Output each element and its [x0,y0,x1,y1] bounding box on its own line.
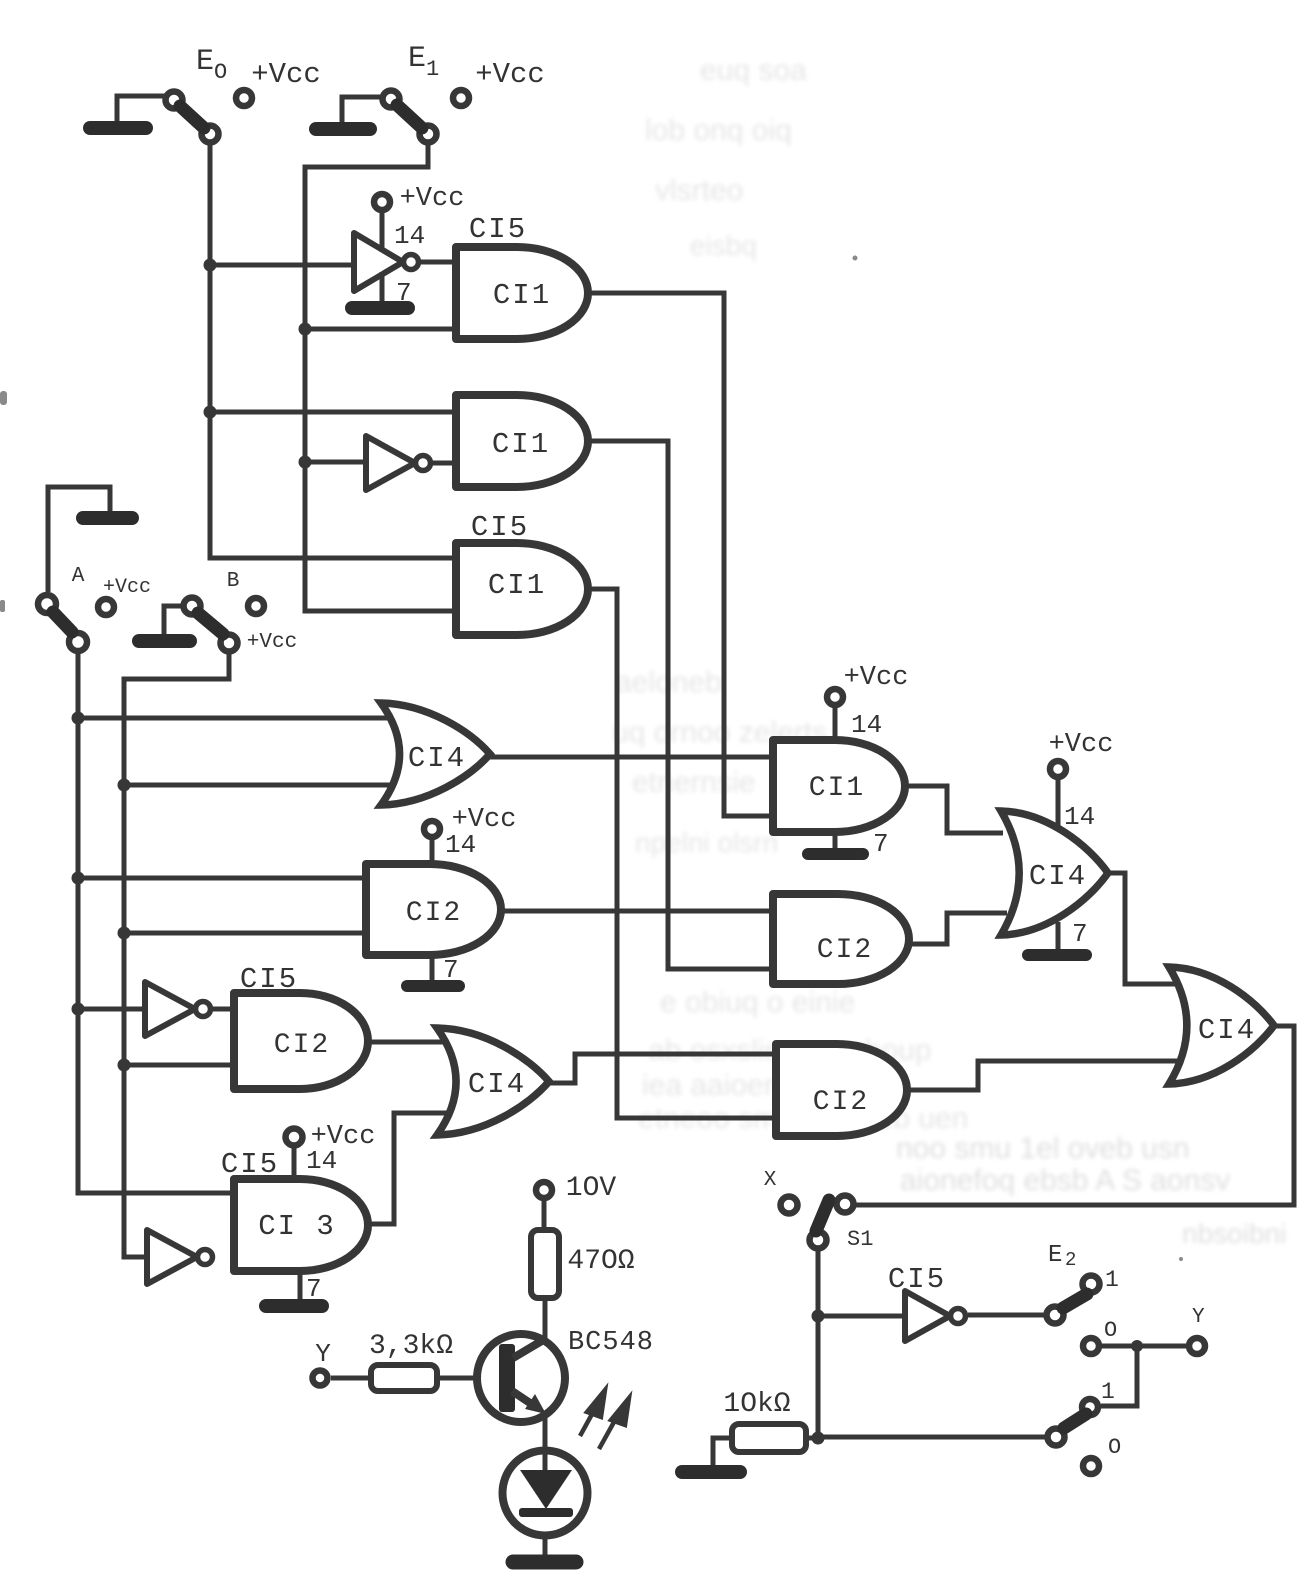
ground (CI1b pin7) [808,848,863,860]
wire: U2 output to AND2 bottom input [433,461,456,466]
node: E0 line to AND2 [204,406,217,419]
terminal +Vcc (CI1b pin14) [827,689,843,705]
OR gate CI4 (far right) [1169,967,1274,1084]
wire: tap to CI2c bottom input [124,1063,234,1068]
wire: OR1 output to CI1b top input [490,755,773,760]
terminal 0 (bottom) [1083,1458,1099,1474]
svg-text:BC548: BC548 [568,1328,654,1358]
node: Y branch [1131,1340,1143,1352]
terminal +Vcc (CI4 pin14) [1050,761,1066,777]
wire: terminal 0 to output Y [1102,1344,1187,1349]
svg-text:CI4: CI4 [1198,1014,1256,1047]
terminal Y (input, left) [313,1371,328,1386]
wire: tap to CI2a top input [78,876,366,881]
wire: R2 to Q1 base [437,1376,500,1381]
AND gate CI2a (left middle) [366,864,501,955]
svg-text:1: 1 [1101,1379,1115,1405]
svg-text:CI1: CI1 [493,279,551,312]
wire: switch A ground lead [48,487,110,592]
node: E1 line to AND1 [299,323,312,336]
AND gate CI2d (bottom middle) [776,1044,907,1136]
svg-text:eisbq: eisbq [690,230,757,261]
terminal 0 (upper) [1083,1338,1099,1354]
wire: switch B output down to inverter U4 input [124,654,229,1257]
wire: OR3 ground lead [1056,922,1061,951]
svg-text:+Vcc: +Vcc [251,58,321,91]
wire: AND3 output down to CI2d bottom input [588,589,776,1118]
svg-text:CI2: CI2 [813,1087,869,1118]
ground (U1 pin7) [352,301,408,315]
ground (E1) [316,122,370,136]
resistor R3 10k [732,1424,806,1452]
switch B [184,598,201,615]
OR gate CI4 (left) [381,703,490,805]
wire: R1 to Q1 collector [543,1297,548,1341]
svg-text:14: 14 [394,221,425,251]
wire: CI1b Vcc lead [833,706,838,740]
ground (LED) [513,1555,576,1570]
inverter U2 [366,436,415,490]
node: S1 line to U5 [812,1310,825,1323]
svg-text:+Vcc: +Vcc [247,631,297,654]
OR gate CI4 (right) [1001,811,1108,935]
resistor R1 470 ohm [531,1230,559,1298]
svg-text:CI5: CI5 [240,963,298,996]
ground (switch B) [139,634,190,648]
AND gate CI3 [234,1179,368,1271]
terminal 1 (lower switch) [1082,1399,1098,1415]
wire: CI2a Vcc lead [430,839,435,864]
node: E0 line to U1 [204,259,217,272]
svg-text:14: 14 [1064,802,1095,832]
wire: OR3 output down to OR4 top input [1108,873,1178,984]
wire: CI2c output to OR2 top input [368,1040,455,1045]
wire: AND1 output down to CI1b bottom input [588,293,773,816]
svg-text:CI1: CI1 [492,428,550,461]
svg-text:+Vcc: +Vcc [475,58,545,91]
LED light arrows [580,1390,629,1449]
wire: tap to inverter U5 input [818,1314,905,1319]
terminal +Vcc (E0) [236,90,252,106]
wire: CI2d output to OR4 bottom input [907,1061,1178,1090]
wire: OR4 output down to switch S1 contact X [856,1026,1294,1205]
wire: CI3 ground lead [298,1271,303,1300]
wire: LED cathode to ground [543,1516,548,1556]
svg-text:14: 14 [851,710,882,740]
svg-text:1OV: 1OV [566,1173,617,1204]
wire: tap to AND2 top input [210,410,456,415]
node: A line to U3 [72,1003,85,1016]
svg-text:1: 1 [426,57,439,82]
ground (CI2a pin7) [407,980,459,992]
svg-text:CI4: CI4 [468,1068,526,1101]
svg-text:CI5: CI5 [888,1263,946,1296]
svg-text:B: B [227,570,240,593]
inverter U3 [145,982,195,1036]
inverter U4 [147,1230,197,1284]
svg-text:1OkΩ: 1OkΩ [723,1389,790,1420]
wire: tap to inverter U2 input [305,460,366,465]
inverter U1 CI5 [354,233,403,291]
svg-text:CI2: CI2 [817,935,873,966]
wire: Q1 emitter to LED anode [543,1412,548,1473]
node: A line to CI2a [72,872,85,885]
node: A line to OR1 [72,712,85,725]
wire: tap to inverter U1 input [210,263,354,268]
terminal Y (output) [1189,1338,1205,1354]
terminal +Vcc (CI2a pin14) [424,821,440,837]
svg-text:O: O [1104,1318,1117,1343]
wire: 10V lead to R1 [542,1201,547,1230]
svg-text:lob onq oiq: lob onq oiq [645,114,792,147]
svg-text:CI 3: CI 3 [258,1210,336,1243]
terminal +Vcc (U1 pin14) [374,194,390,210]
wire: CI2b output to OR3 bottom input [909,913,1007,944]
wire: Y branch down to contact 1 of lower switch [1101,1346,1137,1406]
wire: E0 ground lead [117,96,164,128]
svg-text:CI1: CI1 [809,773,865,804]
terminal 10V [536,1182,552,1198]
svg-text:E: E [1048,1242,1062,1269]
svg-text:7: 7 [1072,919,1088,949]
node: E1 line to U2 [299,456,312,469]
svg-text:etnernsie: etnernsie [632,766,755,799]
switch lower common [1048,1429,1065,1446]
svg-text:CI1: CI1 [488,569,546,602]
svg-text:E: E [196,45,214,79]
svg-text:+Vcc: +Vcc [1049,730,1114,760]
svg-text:O: O [1108,1435,1121,1460]
wire: tap to OR1 top input [78,716,400,721]
wire: 10k right lead [806,1436,818,1441]
wire: switch A output down to CI3 top input [78,654,234,1193]
OR gate CI4 (middle) [437,1028,549,1135]
ground (R3 10k) [682,1465,740,1479]
svg-text:aionefoq ebsb A S aonsv: aionefoq ebsb A S aonsv [900,1164,1230,1197]
wire: U1 ground stub over triangle [380,272,385,304]
svg-text:e obiuq o einie: e obiuq o einie [660,986,855,1019]
switch E1 [383,91,400,108]
wire: U1 Vcc stub over triangle [380,214,385,252]
switch A [38,595,56,613]
svg-text:S1: S1 [847,1227,873,1252]
svg-text:Y: Y [315,1339,331,1369]
switch S1 [781,1197,798,1214]
ground (switch A) [83,511,132,525]
node: 10k / switches junction [812,1432,825,1445]
svg-text:O: O [214,60,227,85]
svg-text:47OΩ: 47OΩ [567,1246,634,1277]
svg-text:npelni olsrn: npelni olsrn [635,827,778,858]
svg-text:CI4: CI4 [1029,860,1087,893]
svg-text:14: 14 [306,1146,337,1176]
svg-text:CI2: CI2 [274,1030,330,1061]
wire: input Y lead to R2 [331,1376,371,1381]
wire: E0 output down to AND3 top input [210,145,456,558]
wire: lower switch common to 10k junction [818,1435,1047,1440]
svg-text:noo smu 1el oveb usn: noo smu 1el oveb usn [896,1132,1190,1165]
ground (CI3 pin7) [266,1299,322,1313]
svg-text:7: 7 [443,955,459,985]
wire: CI3 Vcc lead [292,1148,297,1179]
AND gate CI1 (second) [456,395,588,487]
svg-text:7: 7 [873,829,889,859]
AND gate CI1 (top, E gates) [456,247,588,339]
wire: switch B ground lead [164,606,182,636]
svg-text:CI2: CI2 [406,898,462,929]
svg-text:7: 7 [396,278,412,308]
wire: tap to CI2a bottom input [124,931,366,936]
AND gate CI2c (with U3) [234,993,368,1089]
AND gate CI2b (right) [773,894,909,984]
node: B line to CI2c [118,1059,131,1072]
wire: CI1b output to OR3 top input [905,786,1003,833]
wire: OR3 Vcc lead [1056,776,1061,827]
faint page bleed-through (decorative) [612,54,1286,1249]
AND gate CI1 (third) [456,543,588,635]
svg-text:CI5: CI5 [469,213,527,246]
LED D1 [503,1450,588,1536]
AND gate CI1b (right middle) [773,740,905,832]
ground (CI4 right pin7) [1028,949,1086,961]
wire: tap to OR1 bottom input [124,783,400,788]
wire: OR2 output to CI2d top input [549,1054,776,1083]
wire: AND2 output down to CI2b bottom input [588,441,773,969]
transistor Q1 BC548 [477,1334,565,1422]
svg-text:Y: Y [1192,1306,1205,1329]
wire: E1 output down to AND3 bottom input [305,145,456,611]
wire: U1 ground lead [380,289,385,305]
node: B line to CI2a [118,927,131,940]
svg-text:CI5: CI5 [471,511,529,544]
svg-text:CI4: CI4 [408,742,466,775]
svg-text:2: 2 [1065,1249,1076,1271]
wire: tap to AND1 bottom input [305,327,456,332]
switch E0 [166,92,183,109]
svg-text:+Vcc: +Vcc [844,663,909,693]
wire: S1 common down to 10k junction [816,1251,821,1438]
wire: U3 output to CI2c top input [212,1007,234,1012]
wire: CI2a output to CI2b top input [501,909,773,914]
svg-text:vlsrteo: vlsrteo [655,174,743,207]
inverter U5 CI5 [905,1291,950,1341]
svg-text:X: X [764,1169,777,1192]
wire: CI1b ground lead [833,830,838,850]
terminal +Vcc (E1) [453,90,469,106]
svg-text:CI5: CI5 [221,1148,279,1181]
svg-text:euq soa: euq soa [700,54,807,87]
resistor R2 3.3k [371,1365,437,1391]
switch E2 [1047,1307,1064,1324]
wire: E1 ground lead [342,97,381,129]
svg-text:+Vcc: +Vcc [103,576,151,599]
svg-text:1: 1 [1105,1267,1119,1293]
wire: U1 output to AND1 top input [421,260,456,265]
svg-text:7: 7 [306,1274,322,1304]
wire: 10k left lead to ground [713,1438,732,1466]
svg-text:E: E [408,42,426,76]
svg-text:3,3kΩ: 3,3kΩ [369,1331,453,1362]
terminal +Vcc (A) [98,599,114,615]
svg-text:nbsoibni: nbsoibni [1182,1218,1286,1249]
svg-text:14: 14 [445,830,476,860]
wire: CI3 output up to OR2 bottom input [368,1113,455,1224]
svg-text:A: A [72,565,85,588]
ground (E0) [90,121,146,135]
terminal +Vcc (B) [248,598,264,614]
wire: CI2a ground lead [430,955,435,981]
node: B line to OR1 [118,779,131,792]
wire: U5 output to switch E2 common [968,1313,1044,1318]
wire: U1 Vcc lead [380,212,385,235]
wire: tap to inverter U3 input [78,1007,145,1012]
svg-text:+Vcc: +Vcc [400,184,465,214]
terminal +Vcc (CI3 pin14) [286,1129,303,1146]
